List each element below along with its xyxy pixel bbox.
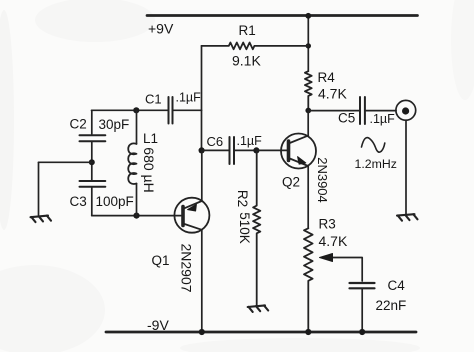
svg-text:4.7K: 4.7K (319, 233, 348, 249)
wire: left ground vertical (38, 162, 40, 215)
resistor R1 (202, 43, 309, 50)
wire: L1 bottom lead (136, 184, 138, 216)
ground (R2) (248, 305, 269, 312)
inductor L1 (128, 143, 136, 184)
svg-text:4.7K: 4.7K (318, 86, 347, 102)
wire: Q2 emitter down to R3 (307, 166, 309, 228)
node: L1 bottom junction (133, 213, 139, 219)
svg-text:C3: C3 (70, 194, 87, 209)
node: R1 right junction (306, 43, 311, 48)
node: C6 left junction (199, 147, 205, 153)
node: C2/C3 ground tap (89, 159, 95, 165)
node: C6/R2/Q2 base junction (253, 147, 259, 153)
wire: bottom tank node row to Q1 base (92, 215, 181, 217)
ground (output jack) (397, 214, 418, 221)
svg-text:1.2mHz: 1.2mHz (355, 157, 397, 171)
capacitor C3 (80, 181, 106, 187)
wire: R1 left vertical down to C1 row (201, 46, 203, 110)
wire: C1 right to main vertical (174, 109, 202, 111)
node: R3 at rail (305, 329, 311, 335)
wire: C1 row left segment (tank node to C1) (92, 109, 168, 111)
capacitor C5 (360, 97, 365, 124)
wire: Q1 emitter up to C6 junction (201, 150, 203, 201)
svg-text:C6: C6 (207, 134, 224, 149)
wire: main vertical C1 row to C6 row (201, 110, 203, 150)
-9V rail (106, 331, 416, 334)
svg-text:-9V: -9V (147, 317, 169, 333)
node: Q1 collector at rail (199, 329, 205, 335)
svg-text:R1: R1 (239, 23, 256, 38)
svg-text:680 µH: 680 µH (141, 147, 157, 192)
svg-text:C1: C1 (145, 92, 162, 107)
node: C4 at rail (359, 329, 365, 335)
transistor Q2 2N3904 (281, 134, 316, 169)
transistor Q1 2N2907 (174, 198, 209, 233)
+9V rail (147, 14, 418, 17)
wire: Q1 collector down to -9V rail (201, 230, 203, 332)
svg-text:+9V: +9V (148, 21, 174, 37)
sine wave symbol (362, 138, 385, 153)
wire: ground tap horizontal (39, 161, 92, 163)
svg-text:.1µF: .1µF (237, 134, 263, 148)
capacitor C1 (169, 97, 173, 124)
svg-text:2N2907: 2N2907 (179, 243, 195, 292)
wire: C2 bottom to mid junction to C3 top (91, 142, 93, 181)
resistor R4 (305, 71, 312, 110)
svg-text:R2: R2 (235, 190, 250, 207)
ground (tank) (31, 216, 52, 223)
svg-text:C5: C5 (338, 111, 355, 126)
wire: Q2 collector up to junction (307, 111, 309, 136)
svg-text:L1: L1 (143, 131, 158, 146)
wire: jack shield down to ground (405, 120, 407, 214)
wire: C6 leads (202, 149, 257, 151)
node: L1 top junction (133, 107, 139, 113)
wire: C3 bottom to bottom tank node (91, 187, 93, 215)
svg-text:Q2: Q2 (282, 175, 300, 190)
resistor R3 (with wiper) (304, 228, 313, 332)
wire: tank top node down to C2 (91, 110, 93, 134)
svg-text:R3: R3 (319, 217, 336, 232)
svg-text:Q1: Q1 (152, 253, 170, 268)
node: R4/C5/Q2 collector junction (305, 108, 311, 114)
resistor R2 (253, 150, 260, 306)
wiper arrowhead (320, 254, 333, 262)
svg-text:.1µF: .1µF (176, 91, 202, 105)
svg-text:R4: R4 (318, 70, 336, 85)
wire: main right vertical from +9V rail to R4 top (307, 16, 309, 72)
svg-text:C4: C4 (388, 278, 406, 293)
svg-text:30pF: 30pF (99, 117, 130, 132)
wire: C4 to -9V rail (361, 289, 363, 333)
svg-text:C2: C2 (70, 117, 87, 132)
svg-text:510K: 510K (237, 212, 252, 244)
wire: L1 top lead (136, 110, 138, 144)
wire: junction to Q2 base (256, 149, 287, 151)
svg-text:22nF: 22nF (376, 298, 407, 313)
svg-text:2N3904: 2N3904 (315, 157, 330, 203)
svg-text:100pF: 100pF (96, 194, 134, 209)
output jack J1 (396, 100, 416, 120)
wire: wiper arrow to C4 (331, 258, 362, 282)
capacitor C6 (230, 137, 235, 164)
capacitor C4 (350, 283, 375, 288)
wire: C5 to output jack (366, 110, 396, 112)
node: top rail junction (305, 13, 311, 19)
capacitor C2 (80, 135, 106, 141)
svg-text:.1µF: .1µF (370, 112, 396, 126)
wire: junction to C5 (308, 110, 359, 112)
svg-text:9.1K: 9.1K (232, 53, 261, 69)
